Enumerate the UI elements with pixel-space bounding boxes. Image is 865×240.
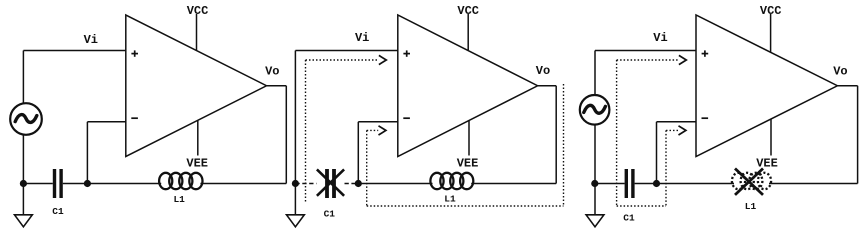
label Vo (circuit 1) [265,65,279,79]
wire feedback to - input (circuit 3) [657,121,697,123]
wire feedback vertical (circuit 2) [357,122,359,184]
svg-text:VCC: VCC [187,4,209,18]
label VEE (circuit 2) [457,157,479,171]
node junction left (circuit 1) [20,180,27,187]
label Vi (circuit 2) [355,31,369,45]
ground (circuit 3) [586,215,604,227]
VCC pin wire U2 [467,14,469,50]
wire source to ground rail (circuit 3) [594,124,596,215]
wire input drop to ground (circuit 2) [294,51,296,215]
wire junction to L1 (circuit 3) [657,183,735,185]
feedback path vertical (circuit 2) [366,130,368,206]
wire output Vo (circuit 1) [267,85,287,87]
svg-text:Vo: Vo [833,65,847,79]
wire input drop to source (circuit 1) [22,51,24,105]
wire source to ground rail (circuit 1) [22,134,24,215]
label VEE (circuit 3) [756,157,778,171]
ground (circuit 1) [15,215,33,227]
signal path under C1 (circuit 3) [617,205,666,207]
node junction feedback (circuit 1) [84,180,91,187]
wire rail junction to C1 (circuit 1) [23,183,52,185]
VEE pin wire U1 [197,121,199,156]
svg-text:L1: L1 [745,201,757,212]
label C1 (circuit 3) [623,213,635,224]
wire junction to L1 (circuit 2) [358,183,432,185]
signal path arrow into - input (circuit 3) [666,126,686,135]
signal path arrow into + input (circuit 3) [617,55,687,64]
op-amp U3 [696,15,837,157]
wire output Vo (circuit 2) [538,85,557,87]
svg-text:VCC: VCC [760,4,782,18]
wire L1 to output drop (circuit 2) [471,183,556,185]
wire (dashed, open) junction to C1 (circuit 2) [295,183,316,185]
AC source V1 [10,103,42,135]
wire C1 to junction (circuit 3) [635,183,657,185]
VCC pin wire U1 [196,14,198,50]
feedback path from output (circuit 2) [563,84,565,206]
wire L1 to output drop (circuit 1) [200,183,286,185]
label L1 (circuit 2) [444,194,456,205]
wire L1 to output drop (circuit 3) [769,183,858,185]
label Vo (circuit 3) [833,65,847,79]
label Vo (circuit 2) [536,64,550,78]
svg-text:VEE: VEE [186,157,208,171]
capacitor C1 (circuit 3) [625,169,635,198]
wire (dashed, open) C1 to junction (circuit 2) [345,183,359,185]
svg-text:Vi: Vi [84,33,98,47]
svg-text:Vi: Vi [653,31,667,45]
wire Vi to + input (circuit 2) [295,50,397,52]
wire output drop (circuit 1) [285,86,287,184]
wire output Vo (circuit 3) [837,85,857,87]
label VCC (circuit 1) [187,4,209,18]
AC source V3 [580,95,610,125]
label C1 (circuit 1) [52,206,64,217]
op-amp U1 [126,15,267,157]
VEE pin wire U3 [770,119,772,156]
svg-text:Vo: Vo [536,64,550,78]
svg-text:Vi: Vi [355,31,369,45]
node junction feedback (circuit 3) [653,180,660,187]
wire feedback vertical (circuit 1) [86,122,88,184]
label Vi (circuit 3) [653,31,667,45]
wire Vi to + input (circuit 3) [595,50,696,52]
svg-text:VCC: VCC [457,4,479,18]
signal path vertical from Vi (circuit 3) [616,60,618,206]
node junction left (circuit 3) [591,180,598,187]
ground (circuit 2) [287,215,305,227]
capacitor C1 crossed out (circuit 2) [317,169,344,198]
label L1 (circuit 3) [745,201,757,212]
wire feedback to - input (circuit 1) [87,121,125,123]
feedback path bottom run (circuit 2) [367,205,564,207]
wire feedback vertical (circuit 3) [656,122,658,184]
op-amp U2 [398,15,538,157]
wire Vi to + input (circuit 1) [23,50,125,52]
wire junction to L1 (circuit 1) [87,183,161,185]
signal path arrow into + input (circuit 2) [306,55,387,64]
VEE pin wire U2 [468,121,470,156]
label C1 (circuit 2) [324,209,336,220]
wire feedback to - input (circuit 2) [358,121,398,123]
signal path vertical from Vi (circuit 2) [305,60,307,202]
wire output drop (circuit 3) [857,86,859,184]
svg-text:L1: L1 [173,194,185,205]
capacitor C1 (circuit 1) [53,169,63,198]
wire output drop (circuit 2) [555,86,557,184]
svg-text:C1: C1 [623,213,635,224]
inductor L1 (circuit 2) [430,173,473,189]
wire input drop to source (circuit 3) [594,51,596,97]
label Vi (circuit 1) [84,33,98,47]
wire rail junction to C1 (circuit 3) [595,183,625,185]
svg-text:L1: L1 [444,194,456,205]
node junction left (circuit 2) [292,180,299,187]
node junction feedback (circuit 2) [355,180,362,187]
wire C1 to junction (circuit 1) [63,183,88,185]
feedback path arrow into - input (circuit 2) [367,126,386,135]
svg-text:Vo: Vo [265,65,279,79]
label VCC (circuit 3) [760,4,782,18]
inductor L1 crossed out (circuit 3) [732,169,771,195]
label L1 (circuit 1) [173,194,185,205]
label VEE (circuit 1) [186,157,208,171]
label VCC (circuit 2) [457,4,479,18]
svg-text:C1: C1 [324,209,336,220]
svg-text:C1: C1 [52,206,64,217]
svg-text:VEE: VEE [457,157,479,171]
VCC pin wire U3 [770,14,772,52]
inductor L1 (circuit 1) [159,173,202,189]
signal path up right of C1 (circuit 3) [665,130,667,206]
svg-text:VEE: VEE [756,157,778,171]
